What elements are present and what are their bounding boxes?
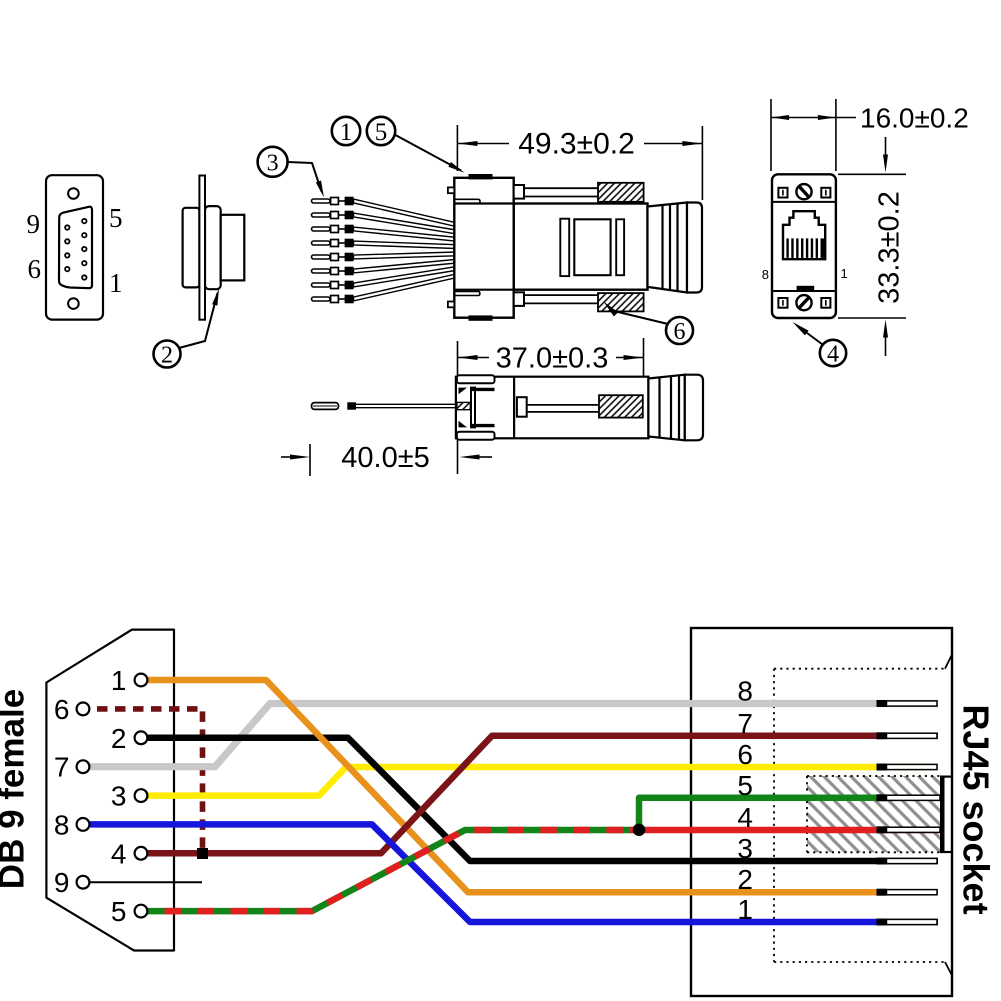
wire DB9 pin4 to RJ45 pin7 (dark red) xyxy=(148,736,938,854)
svg-text:4: 4 xyxy=(111,838,127,869)
wire DB9 pin1 to RJ45 pin2 (orange) xyxy=(148,680,938,892)
flange slot top xyxy=(454,199,480,203)
svg-text:8: 8 xyxy=(54,809,70,840)
pin hole xyxy=(82,275,86,279)
svg-text:9: 9 xyxy=(54,867,70,898)
adapter DB9 flange xyxy=(448,178,514,318)
RJ45 contact pin 3 xyxy=(877,858,938,865)
junction square pin6 jumper xyxy=(197,848,208,859)
svg-text:1: 1 xyxy=(340,119,353,146)
hood label recess left bar xyxy=(560,219,569,276)
crimp wire 3 xyxy=(312,225,456,241)
crimp wire 2 xyxy=(312,211,456,234)
svg-text:5: 5 xyxy=(109,203,123,233)
DB9 pin 7 xyxy=(54,752,89,783)
RJ45 inner dotted outline xyxy=(774,669,945,962)
svg-text:9: 9 xyxy=(27,209,41,239)
mounting pad xyxy=(821,298,830,308)
callout circle 4 xyxy=(820,340,846,366)
flange column xyxy=(471,388,495,428)
adapter bottom view body xyxy=(456,375,649,439)
wire green branch to RJ45 pin5 xyxy=(639,798,938,832)
DB9 side view flange plate xyxy=(199,176,205,320)
callout circle 6 xyxy=(666,317,693,344)
svg-text:RJ45 socket: RJ45 socket xyxy=(956,704,997,914)
mounting pad xyxy=(778,188,787,198)
callout 3 leader xyxy=(288,162,322,192)
svg-text:1: 1 xyxy=(841,266,848,281)
top screw xyxy=(796,184,811,199)
svg-text:3: 3 xyxy=(267,151,279,177)
DB9 side view insulator block xyxy=(183,208,200,288)
pin hole xyxy=(82,261,86,265)
latch bar xyxy=(797,286,815,291)
RJ45 contact pin 8 xyxy=(877,700,938,707)
wire DB9 pin2 to RJ45 pin3 (black) xyxy=(148,738,938,861)
svg-text:40.0±5: 40.0±5 xyxy=(341,442,430,474)
crimp wire 4 xyxy=(312,239,456,249)
flange black bar bottom xyxy=(469,315,493,320)
DB9 pin 5 xyxy=(111,896,147,927)
callout circle 3 xyxy=(258,147,288,177)
dimension 49.3 +/-0.2 xyxy=(457,125,702,200)
screw hole bottom xyxy=(68,298,79,309)
svg-text:7: 7 xyxy=(737,708,753,739)
svg-text:16.0±0.2: 16.0±0.2 xyxy=(860,103,969,134)
svg-text:5: 5 xyxy=(375,119,388,146)
crimped wire lead (bottom view) xyxy=(312,402,471,409)
flange notch top xyxy=(459,388,468,395)
svg-text:33.3±0.2: 33.3±0.2 xyxy=(874,191,906,304)
svg-text:7: 7 xyxy=(54,752,70,783)
crimp wire 5 xyxy=(312,252,456,261)
pin hole xyxy=(65,225,69,229)
wire DB9 pin8 to RJ45 pin1 (blue) xyxy=(90,824,938,922)
callout circle 1 xyxy=(332,117,360,145)
svg-text:6: 6 xyxy=(737,739,753,770)
svg-text:6: 6 xyxy=(54,694,70,725)
flange nub bottom xyxy=(448,302,454,308)
pin hole xyxy=(82,219,86,223)
callout 4 leader xyxy=(797,326,823,345)
RJ45 socket box xyxy=(691,628,952,996)
RJ45 corner bevels xyxy=(945,655,952,669)
svg-text:1: 1 xyxy=(737,894,753,925)
RJ45 contact pin 7 xyxy=(877,732,938,739)
flange tab bottom xyxy=(457,432,495,440)
boot (bottom view) xyxy=(648,375,703,441)
DB9 pin 9 xyxy=(54,867,89,898)
mounting pad xyxy=(821,188,830,198)
flange nub top xyxy=(448,187,454,193)
callout 2 leader xyxy=(179,293,218,348)
svg-text:3: 3 xyxy=(737,833,753,864)
DB9 side view barrel xyxy=(221,215,245,281)
crimp wire 8 xyxy=(312,274,456,303)
jack contact comb xyxy=(786,238,824,258)
wire DB9 pin5 red-green striped xyxy=(148,798,938,911)
DB9 pin 8 xyxy=(54,809,89,840)
RJ45 socket front view body xyxy=(772,174,836,318)
hex nut bottom (hatched) xyxy=(598,293,644,311)
crimp wire 1 xyxy=(312,197,456,227)
svg-text:4: 4 xyxy=(737,802,753,833)
flange tab top xyxy=(457,375,495,383)
hood label recess right bar xyxy=(616,219,624,275)
strain relief boot xyxy=(648,203,703,293)
wire DB9 pin7 to RJ45 pin8 (grey) xyxy=(90,704,938,767)
svg-text:37.0±0.3: 37.0±0.3 xyxy=(496,343,609,375)
junction dot green/red xyxy=(633,824,646,837)
screw shaft (bottom view) xyxy=(527,404,599,406)
svg-text:2: 2 xyxy=(737,864,753,895)
DB9 pin 6 xyxy=(54,694,89,725)
hex nut top (hatched) xyxy=(598,183,644,202)
screw post top xyxy=(514,185,598,199)
crimp wire 7 xyxy=(312,267,456,290)
DB9 pin 2 xyxy=(111,723,147,754)
crimp wire 6 xyxy=(312,259,456,275)
screw hole top xyxy=(68,188,79,199)
svg-text:8: 8 xyxy=(737,676,753,707)
dimension 16.0 +/-0.2 xyxy=(771,99,856,171)
svg-text:4: 4 xyxy=(827,342,839,368)
leader for callouts 1,5 xyxy=(395,135,462,171)
DB9 female shell outline xyxy=(46,630,174,951)
wire red to RJ45 pin4 xyxy=(630,827,938,834)
pin hole xyxy=(65,239,69,243)
svg-text:1: 1 xyxy=(109,268,123,298)
screw head (bottom view) xyxy=(517,397,527,417)
svg-text:1: 1 xyxy=(111,665,127,696)
DB9 side view shell block xyxy=(205,206,221,289)
dimension 33.3 +/-0.2 xyxy=(838,137,906,356)
dimension 40.0 +/-5 xyxy=(281,444,492,476)
RJ45 contact pin 5 xyxy=(877,794,941,801)
callout 6 leader xyxy=(612,311,668,325)
latch window hatched area xyxy=(807,776,952,852)
RJ45 contact pin 2 xyxy=(877,889,938,896)
hood label recess square xyxy=(574,219,610,275)
svg-text:2: 2 xyxy=(161,343,173,369)
wire DB9 pin9 stub xyxy=(90,881,202,883)
pin hole xyxy=(65,253,69,257)
flange slot bottom xyxy=(454,291,480,295)
pin hole xyxy=(82,247,86,251)
DB9 pin 1 xyxy=(111,665,147,696)
pin hole xyxy=(65,267,69,271)
DB9 pin 3 xyxy=(111,781,147,812)
svg-text:8: 8 xyxy=(762,267,769,282)
DB9 pin 4 xyxy=(111,838,147,869)
RJ45 contact pin 6 xyxy=(877,764,938,771)
svg-text:6: 6 xyxy=(28,254,42,284)
dimension 37.0 +/-0.3 xyxy=(458,338,644,474)
RJ45 jack opening xyxy=(783,211,825,259)
flange black bar top xyxy=(469,174,493,179)
wire DB9 pin3 to RJ45 pin6 (yellow) xyxy=(148,767,938,796)
callout circle 2 xyxy=(154,341,181,368)
D-shell opening xyxy=(59,207,92,289)
wire DB9 pin6 dashed jumper xyxy=(97,709,203,853)
screw post bottom xyxy=(514,292,598,306)
bottom screw xyxy=(796,295,811,310)
mounting pad xyxy=(778,298,787,308)
svg-text:5: 5 xyxy=(111,896,127,927)
RJ45 contact pin 1 xyxy=(877,919,938,926)
hex nut (bottom view, hatched) xyxy=(599,395,643,417)
svg-text:DB 9 female: DB 9 female xyxy=(0,689,32,889)
svg-text:5: 5 xyxy=(737,770,753,801)
DB9 connector front view xyxy=(46,175,103,319)
flange notch bottom xyxy=(459,421,468,428)
callout circle 5 xyxy=(367,117,395,145)
svg-text:6: 6 xyxy=(674,319,686,345)
adapter hood body xyxy=(514,204,648,290)
svg-text:2: 2 xyxy=(111,723,127,754)
RJ45 contact pin 4 xyxy=(877,826,941,833)
svg-text:49.3±0.2: 49.3±0.2 xyxy=(518,128,635,161)
pin hole xyxy=(82,233,86,237)
svg-text:3: 3 xyxy=(111,781,127,812)
